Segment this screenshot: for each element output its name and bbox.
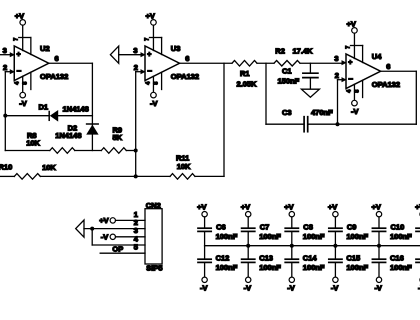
svg-text:-V: -V	[200, 283, 208, 292]
pin 8 tick of U4	[351, 45, 363, 47]
wire pin7 of U2	[22, 25, 24, 50]
svg-text:C3: C3	[282, 108, 292, 117]
wire C16 to -V	[378, 263, 380, 277]
power -V symbol at CN2 pin 3	[110, 234, 115, 239]
capacitor C7 100nF	[242, 227, 255, 229]
op-amp U3 body	[145, 46, 180, 81]
svg-text:8: 8	[354, 90, 360, 93]
pin 3 arrowhead of U3	[141, 52, 146, 57]
power +V symbol of U3	[151, 20, 157, 26]
svg-text:100nF: 100nF	[390, 263, 412, 272]
wire pin7 of U4	[353, 33, 355, 58]
power +V symbol at CN2 pin 1	[110, 218, 115, 223]
pin 8 tick of U3	[150, 37, 162, 39]
svg-text:+: +	[147, 52, 151, 59]
wire pin7 of U3	[152, 25, 154, 50]
wire R2 to U4 pin 3	[300, 62, 342, 64]
svg-text:-V: -V	[150, 99, 158, 108]
capacitor C3 470nF	[303, 117, 305, 132]
wire to C1	[309, 63, 311, 73]
diode D1 1N4148	[48, 112, 50, 121]
svg-text:+V: +V	[372, 203, 381, 212]
svg-text:+V: +V	[415, 203, 420, 212]
capacitor C11 100nF	[416, 227, 420, 229]
junction rail at C10	[377, 244, 381, 248]
junction node R9 / U3 feedback	[134, 149, 138, 153]
junction node CN2 pin2/pin4	[90, 227, 94, 231]
capacitor C16 100nF	[372, 258, 385, 260]
resistor R11 10K	[170, 174, 195, 180]
capacitor C17 100nF	[416, 258, 420, 260]
svg-text:100nF: 100nF	[346, 232, 368, 241]
wire U4 output pin 6	[381, 70, 417, 72]
svg-text:-V: -V	[244, 283, 252, 292]
svg-text:−: −	[16, 66, 21, 75]
wire C6 to rail	[204, 232, 206, 246]
power -V symbol below C12	[202, 277, 207, 282]
resistor R9 5K	[101, 148, 126, 154]
svg-text:7: 7	[144, 38, 150, 41]
svg-text:C12: C12	[216, 254, 230, 263]
wire rail to C13	[247, 246, 249, 259]
power -V symbol of U2	[20, 92, 26, 98]
svg-text:OPA132: OPA132	[171, 72, 199, 81]
svg-text:470nF: 470nF	[311, 108, 333, 117]
power -V symbol below C15	[333, 277, 338, 282]
svg-text:U2: U2	[40, 44, 50, 53]
pin 8 bottom stub of U4	[362, 80, 364, 97]
ground symbol	[301, 89, 319, 97]
wire R11 right	[195, 175, 224, 177]
svg-text:2: 2	[134, 63, 138, 72]
pin 2 arrowhead of U2	[10, 69, 15, 74]
wire C3 right plate to feedback	[308, 123, 416, 125]
wire C14 to -V	[291, 263, 293, 277]
svg-text:+: +	[16, 52, 20, 59]
resistor R2 17.4K	[274, 61, 300, 67]
svg-text:10K: 10K	[26, 138, 40, 147]
capacitor C9 100nF	[329, 227, 342, 229]
power -V symbol of U4	[352, 100, 358, 106]
svg-text:100nF: 100nF	[216, 263, 238, 272]
svg-text:C1: C1	[282, 66, 292, 75]
svg-text:4: 4	[15, 82, 21, 85]
pin 2 arrowhead of U4	[342, 77, 347, 82]
svg-text:R1: R1	[240, 69, 250, 78]
svg-text:150nF: 150nF	[278, 77, 300, 86]
svg-text:10K: 10K	[42, 163, 56, 172]
svg-text:R2: R2	[275, 46, 285, 55]
power +V symbol above C9	[333, 212, 338, 217]
svg-text:100nF: 100nF	[216, 232, 238, 241]
capacitor C6 100nF	[198, 227, 211, 229]
svg-text:+V: +V	[15, 11, 24, 20]
wire rail to C12	[204, 246, 206, 259]
wire U4 pin 2 stub	[338, 79, 342, 81]
svg-text:C13: C13	[259, 254, 273, 263]
wire R8 to R9 node	[75, 150, 102, 152]
wire C9 to rail	[334, 232, 336, 246]
wire CN2 pin 4 up to node	[91, 229, 93, 245]
wire node to D1 cathode	[5, 115, 48, 117]
svg-text:C16: C16	[390, 254, 404, 263]
input port arrow (CN2 pin 2)	[76, 220, 84, 237]
svg-text:C7: C7	[260, 223, 270, 232]
svg-text:+V: +V	[145, 11, 154, 20]
input port arrow (to U3)	[110, 46, 118, 63]
power -V symbol below C16	[376, 277, 381, 282]
wire D1 anode to node	[58, 115, 92, 117]
svg-text:-V: -V	[19, 99, 27, 108]
capacitor C12 100nF	[198, 258, 211, 260]
svg-text:7: 7	[14, 38, 20, 41]
wire R11 up to U3 output net	[223, 63, 225, 176]
pin 8 bottom stub of U2	[30, 72, 32, 89]
svg-text:+V: +V	[328, 203, 337, 212]
svg-text:100nF: 100nF	[303, 232, 325, 241]
svg-text:C10: C10	[391, 223, 405, 232]
wire left edge to R10	[0, 175, 14, 177]
supply rail of decoupling bank	[205, 245, 420, 247]
svg-text:3: 3	[3, 46, 7, 55]
power +V symbol of U2	[20, 20, 26, 26]
svg-text:6: 6	[386, 62, 390, 71]
svg-text:2: 2	[3, 63, 7, 72]
svg-text:CN2: CN2	[146, 201, 161, 210]
diode D2 1N4148	[87, 123, 99, 125]
wire CN2 pin 4	[92, 244, 145, 246]
junction rail at C9	[333, 244, 337, 248]
wire +V to C8	[291, 217, 293, 228]
wire C10 to rail	[378, 232, 380, 246]
wire to C3 left plate	[266, 123, 304, 125]
power +V symbol above C10	[376, 212, 381, 217]
wire R9 right to node	[126, 150, 135, 152]
svg-text:C14: C14	[303, 254, 318, 263]
svg-text:C8: C8	[303, 223, 313, 232]
wire left of R8	[5, 150, 50, 152]
wire C13 to -V	[247, 263, 249, 277]
pin 2 arrowhead of U3	[141, 69, 146, 74]
svg-text:U3: U3	[171, 44, 181, 53]
wire U2 pin2 down to R8	[4, 72, 6, 151]
svg-text:OP: OP	[112, 245, 123, 254]
svg-text:8: 8	[153, 82, 159, 85]
svg-text:+V: +V	[99, 216, 108, 225]
capacitor C14 100nF	[285, 258, 298, 260]
svg-text:R10: R10	[0, 163, 12, 172]
svg-text:4: 4	[145, 82, 151, 85]
svg-text:+V: +V	[284, 203, 293, 212]
svg-text:100nF: 100nF	[259, 232, 281, 241]
wire +V to C7	[247, 217, 249, 228]
junction node R10 / R11	[134, 174, 138, 178]
power +V symbol of U4	[352, 28, 358, 34]
svg-text:C9: C9	[347, 223, 357, 232]
op-amp U2 body	[14, 46, 49, 81]
power -V symbol below C14	[289, 277, 294, 282]
svg-text:SIP5: SIP5	[146, 263, 162, 272]
wire rail to C16	[378, 246, 380, 259]
svg-text:1N4148: 1N4148	[55, 131, 81, 140]
svg-text:+: +	[348, 60, 352, 67]
svg-text:4: 4	[346, 90, 352, 93]
wire CN2 pin 5 (OP)	[100, 252, 145, 254]
svg-text:D1: D1	[39, 102, 49, 111]
wire U3 pin 2 stub	[136, 71, 141, 73]
capacitor C10 100nF	[372, 227, 385, 229]
wire C8 to rail	[291, 232, 293, 246]
wire U2 output down through D2	[91, 63, 93, 150]
svg-text:−: −	[147, 66, 152, 75]
wire U4 pin 2 down	[337, 80, 339, 125]
pin 3 arrowhead of U4	[342, 60, 347, 65]
power -V symbol of U3	[151, 92, 157, 98]
svg-text:+V: +V	[197, 203, 206, 212]
svg-text:C15: C15	[346, 254, 360, 263]
wire port to U3 pin 3	[119, 54, 141, 56]
capacitor C8 100nF	[285, 227, 298, 229]
svg-text:5: 5	[134, 243, 138, 252]
svg-text:-V: -V	[101, 232, 109, 241]
svg-text:100nF: 100nF	[390, 232, 412, 241]
junction node U2 feedback	[3, 114, 7, 118]
wire R10 to node	[40, 175, 135, 177]
wire C15 to -V	[334, 263, 336, 277]
junction node C3 / U4 pin 2	[336, 122, 340, 126]
svg-text:+V: +V	[241, 203, 250, 212]
wire CN2 pin 1	[116, 219, 146, 221]
svg-text:-V: -V	[287, 283, 295, 292]
wire pin4 of U4	[353, 84, 355, 100]
pin 8 bottom stub of U3	[161, 72, 163, 89]
svg-text:-V: -V	[374, 283, 382, 292]
wire CN2 pin 3	[116, 236, 146, 238]
svg-text:100nF: 100nF	[303, 263, 325, 272]
power +V symbol above C7	[246, 212, 251, 217]
pin 3 arrowhead of U2	[10, 52, 15, 57]
power +V symbol above C8	[289, 212, 294, 217]
svg-text:U4: U4	[372, 52, 382, 61]
wire node to R11	[136, 175, 170, 177]
resistor R8 10K	[50, 148, 75, 154]
svg-text:3: 3	[133, 46, 137, 55]
svg-text:10K: 10K	[177, 162, 191, 171]
junction rail at C8	[290, 244, 294, 248]
wire U2 pin 2 feedback	[5, 71, 10, 73]
wire R1-R2 node down to C3	[265, 63, 267, 124]
wire rail to C14	[291, 246, 293, 259]
svg-text:2: 2	[335, 71, 339, 80]
connector CN2 SIP5 body	[145, 209, 162, 264]
svg-text:C6: C6	[216, 223, 226, 232]
svg-text:-V: -V	[351, 107, 359, 116]
resistor R10 10K	[14, 174, 40, 180]
wire input to U2 pin 3	[0, 54, 10, 56]
wire rail to C15	[334, 246, 336, 259]
svg-text:100nF: 100nF	[259, 263, 281, 272]
wire +V to C9	[334, 217, 336, 228]
svg-text:6: 6	[55, 54, 59, 63]
wire C12 to -V	[204, 263, 206, 277]
power -V symbol below C13	[246, 277, 251, 282]
wire U3 output pin 6	[180, 62, 233, 64]
svg-text:−: −	[348, 74, 353, 83]
svg-text:100nF: 100nF	[346, 263, 368, 272]
svg-text:1N4148: 1N4148	[63, 105, 89, 114]
op-amp U4 body	[346, 54, 381, 89]
svg-text:2.05K: 2.05K	[237, 80, 258, 89]
wire R1 to R2	[257, 62, 274, 64]
junction rail at C7	[246, 244, 250, 248]
capacitor C1 150nF	[303, 72, 318, 74]
wire +V to C10	[378, 217, 380, 228]
wire C1 to ground	[309, 78, 311, 89]
svg-text:8: 8	[23, 82, 29, 85]
wire +V to C6	[204, 217, 206, 228]
svg-text:6: 6	[185, 54, 189, 63]
svg-text:-V: -V	[331, 283, 339, 292]
pin 8 tick of U2	[19, 37, 31, 39]
svg-text:OPA132: OPA132	[372, 80, 400, 89]
svg-text:3: 3	[334, 54, 338, 63]
wire U2 output pin 6	[49, 62, 93, 64]
power +V symbol above C6	[202, 212, 207, 217]
wire CN2 pin 2	[84, 228, 145, 230]
wire U4 output feedback down	[415, 71, 417, 124]
svg-text:5K: 5K	[113, 133, 123, 142]
svg-text:+V: +V	[346, 19, 355, 28]
wire pin4 of U3	[152, 76, 154, 92]
svg-text:7: 7	[345, 46, 351, 49]
svg-text:OPA132: OPA132	[40, 72, 68, 81]
wire pin4 of U2	[22, 76, 24, 92]
capacitor C15 100nF	[329, 258, 342, 260]
resistor R1 2.05K	[232, 61, 257, 67]
wire U3 pin2 down to R10/R11 net	[135, 72, 137, 177]
capacitor C13 100nF	[242, 258, 255, 260]
svg-text:17.4K: 17.4K	[293, 46, 314, 55]
wire C7 to rail	[247, 232, 249, 246]
